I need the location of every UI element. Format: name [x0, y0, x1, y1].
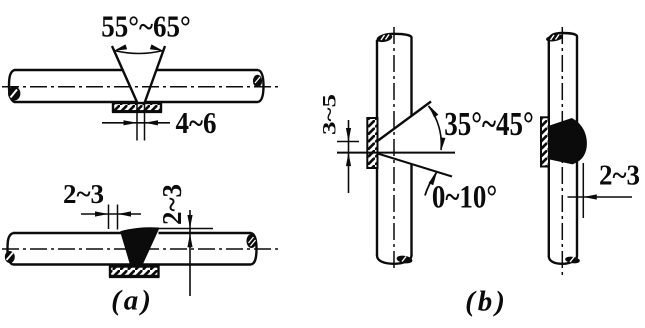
figure (b) left bar: upper bevel line 35-45 deg — [378, 102, 432, 142]
figure (a) upper joint: groove right bevel line — [145, 46, 165, 103]
svg-text:35°~45°: 35°~45° — [444, 105, 534, 143]
figure (b) left bar: upper right edge — [410, 37, 412, 116]
figure (a) upper joint: left end dark wall crescent — [8, 87, 20, 101]
figure (b) right bar: reinforcement dimension line — [568, 196, 633, 198]
figure (b) left bar: bevel angle arc upper arrowhead — [426, 104, 438, 118]
figure (b) right bar: dimension arrow pointing left — [583, 194, 597, 199]
svg-text:2~3: 2~3 — [599, 159, 640, 191]
figure (b) right bar: bottom end cap — [549, 256, 577, 264]
figure (a) upper joint: horizontal centerline — [2, 86, 281, 88]
svg-text:4~6: 4~6 — [175, 106, 216, 140]
figure (a) upper joint: right crescent hatch slash — [255, 77, 260, 83]
figure (b) left bar: dimension arrow pointing up — [346, 153, 351, 167]
figure (a) upper joint: right end dark wall crescent — [253, 75, 262, 87]
figure (b) left bar: bottom end dark wall crescent — [396, 254, 413, 264]
svg-text:0~10°: 0~10° — [432, 179, 497, 215]
figure (b) left bar: backing strip hatching — [368, 119, 377, 167]
svg-text:55°~65°: 55°~65° — [101, 10, 191, 44]
figure (a) upper joint: dimension arrow pointing right — [124, 120, 138, 125]
figure (b) left bar: horizontal root reference line — [337, 152, 455, 154]
figure (b) left bar: vertical centerline — [393, 27, 395, 272]
figure (b) right bar: black weld bead fill — [549, 119, 586, 164]
figure (a) lower joint: dimension arrow pointing left — [118, 211, 132, 216]
figure (b) right bar: vertical centerline — [561, 27, 563, 279]
svg-text:2~3: 2~3 — [157, 184, 187, 225]
svg-text:2~3: 2~3 — [63, 179, 104, 209]
figure (b) right bar: right edge — [576, 37, 578, 257]
figure (b) right bar: bottom crescent hatch slash — [570, 257, 574, 262]
figure (a) lower joint: backing strip outline — [110, 267, 159, 277]
svg-text:(b): (b) — [465, 286, 508, 318]
figure (a) upper joint: left rounded bar end cap — [9, 70, 15, 102]
figure (b) right bar: backing strip outline — [541, 117, 549, 166]
figure (a) lower joint: left end dark wall crescent — [5, 251, 15, 263]
figure (a) lower joint: right rounded bar end cap — [251, 233, 257, 265]
figure (a) lower joint: horizontal centerline — [2, 248, 278, 250]
figure (a) lower joint: black weld bead fill — [121, 228, 159, 266]
figure (a) upper joint: angle arc right arrowhead — [150, 44, 164, 53]
figure (a) lower joint: reinforcement arrow pointing up — [187, 234, 192, 248]
figure (b) left bar: root gap vertical dimension line — [348, 120, 350, 193]
figure (a) lower joint: left crescent hatch slash — [7, 253, 14, 261]
figure (b) right bar: top end dark wall crescent — [545, 33, 563, 42]
figure (a) lower joint: root gap dimension line — [81, 213, 141, 215]
figure (b) left bar: lower angle leader arrowhead — [429, 171, 440, 185]
figure (a) upper joint: dimension arrow pointing left — [145, 120, 159, 125]
figure (a) upper joint: root gap dimension line — [102, 122, 170, 124]
figure (a) upper joint: left crescent hatch slash — [11, 90, 18, 98]
figure (a) lower joint: right crescent hatch slashes — [249, 237, 256, 246]
figure (a) lower joint: plate bottom edge — [13, 263, 251, 266]
figure (a) upper joint: backing strip thick bottom edge — [112, 110, 162, 113]
figure (a) lower joint: backing strip thick bottom edge — [109, 275, 160, 278]
figure (a) lower joint: left rounded bar end cap — [8, 233, 14, 265]
figure (b) left bar: left edge — [376, 40, 378, 256]
figure (a) upper joint: backing strip outline — [113, 103, 161, 111]
figure (a) upper joint: groove left bevel line — [112, 46, 137, 103]
figure (b) left bar: dimension arrow pointing down — [346, 128, 351, 142]
figure (b) left bar: top crescent hatch slashes — [381, 35, 389, 41]
figure (a) upper joint: groove angle arc — [114, 51, 163, 54]
svg-text:3~5: 3~5 — [319, 94, 340, 135]
figure (a) upper joint: plate top edge right segment — [156, 69, 258, 72]
figure (b) left bar: top end cap — [377, 34, 412, 42]
figure (b) left bar: lower right edge — [410, 164, 412, 256]
figure (a) upper joint: right rounded bar end cap — [258, 70, 264, 102]
figure (b) left bar: backing strip outline — [367, 118, 377, 168]
figure (a) lower joint: root gap right extension line — [117, 205, 119, 230]
figure (b) right bar: weld bulge extension line — [582, 163, 584, 218]
figure (a) upper joint: root gap left extension line — [136, 103, 138, 141]
figure (b) left bar: lower bevel line 0-10 deg — [378, 154, 453, 177]
figure (b) left bar: lower angle leader line — [425, 173, 437, 196]
figure (a) upper joint: angle arc left arrowhead — [113, 44, 127, 53]
figure (a) upper joint: plate top edge left segment — [14, 69, 123, 72]
figure (a) upper joint: root gap right extension line — [144, 103, 146, 141]
figure (a) lower joint: backing strip hatching — [111, 267, 158, 275]
figure (b) left bar: bevel angle arc — [429, 106, 442, 150]
figure (b) left bar: bottom end cap — [377, 256, 412, 264]
figure (a) lower joint: reinforcement vertical dimension line — [189, 210, 191, 296]
figure (b) left bar: bevel angle arc lower arrowhead — [438, 137, 445, 151]
figure (a) lower joint: weld top extension line — [159, 228, 214, 230]
figure (b) left bar: top end dark wall crescent — [376, 33, 393, 44]
figure (a) lower joint: root gap left extension line — [108, 205, 110, 230]
figure (a) upper joint: backing strip hatching — [114, 104, 160, 111]
figure (b) right bar: top end cap — [549, 33, 577, 42]
figure (b) left bar: bottom crescent hatch slash — [402, 257, 406, 262]
figure (a) lower joint: dimension arrow pointing right — [95, 211, 109, 216]
figure (a) lower joint: right end dark wall crescent — [247, 234, 257, 248]
figure (b) right bar: left edge — [548, 41, 550, 257]
figure (b) right bar: top crescent hatch slashes — [551, 35, 560, 41]
figure (b) right bar: bottom end dark wall crescent — [565, 256, 581, 264]
figure (a) lower joint: plate top edge right segment — [159, 232, 252, 235]
figure (a) lower joint: reinforcement arrow pointing down — [187, 215, 192, 229]
svg-text:(a): (a) — [111, 285, 154, 317]
figure (b) right bar: backing strip hatching — [542, 118, 549, 165]
figure (b) left bar: root gap upper extension line — [337, 141, 359, 143]
figure (a) upper joint: plate bottom edge — [14, 101, 258, 104]
figure (a) lower joint: plate top edge left segment — [13, 232, 121, 235]
